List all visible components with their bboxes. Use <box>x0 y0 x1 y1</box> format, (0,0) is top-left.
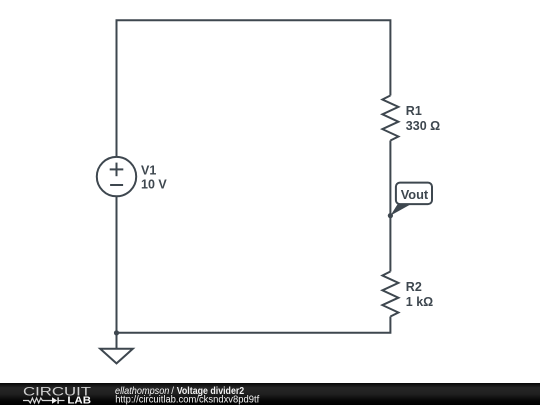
footer line 1: title <box>177 386 245 397</box>
svg-text:LAB: LAB <box>67 395 91 405</box>
wire V1 bottom to ground junction <box>116 196 118 332</box>
svg-text:330 Ω: 330 Ω <box>406 119 440 133</box>
svg-text:V1: V1 <box>141 164 156 178</box>
label V1 <box>141 164 156 178</box>
svg-text:R2: R2 <box>406 280 422 294</box>
resistor R2 <box>382 272 398 317</box>
label R1 <box>406 104 422 118</box>
resistor R1 <box>382 96 398 141</box>
svg-text:10 V: 10 V <box>141 178 167 192</box>
label 1 kohm <box>406 295 433 309</box>
footer bar <box>0 383 540 405</box>
flag Vout <box>390 183 432 216</box>
CircuitLab logo resistor-diode glyph <box>23 397 65 404</box>
svg-text:Vout: Vout <box>401 187 429 202</box>
label 330 ohm <box>406 119 440 133</box>
wire R2 bottom to ground junction <box>117 317 391 333</box>
node Vout junction dot <box>388 213 393 218</box>
ground symbol <box>100 333 133 364</box>
footer line 1: slash <box>171 386 174 397</box>
wire R1 bottom to R2 top <box>389 141 391 272</box>
label R2 <box>406 280 422 294</box>
voltage source V1 <box>97 157 136 196</box>
label 10 V <box>141 178 167 192</box>
CircuitLab logo text CIRCUIT <box>23 385 92 399</box>
footer line 2: url <box>115 394 259 405</box>
svg-text:R1: R1 <box>406 104 422 118</box>
wire top loop (V1 top to R1 top) <box>117 20 391 157</box>
CircuitLab logo text LAB <box>67 395 91 405</box>
svg-text:http://circuitlab.com/cksndxv8: http://circuitlab.com/cksndxv8pd9tf <box>115 394 259 405</box>
svg-text:1 kΩ: 1 kΩ <box>406 295 433 309</box>
footer line 1: author name <box>115 386 169 397</box>
junction dot at ground node <box>114 330 119 335</box>
